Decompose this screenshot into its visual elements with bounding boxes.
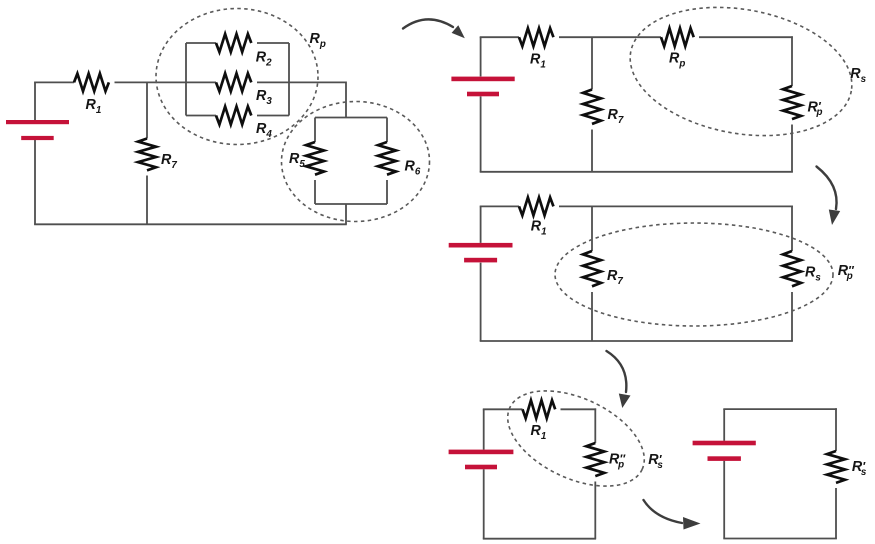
wire: circuit D top, R1 to right corner — [561, 408, 597, 410]
resistor R7 — [583, 90, 601, 124]
wire: circuit C right vertical lower — [791, 292, 793, 341]
wire: R2 branch right lead — [257, 42, 289, 44]
wire: R5/R6 block stub to bottom rail — [345, 204, 347, 224]
wire: circuit B right vertical upper — [791, 36, 793, 86]
wire: R5/R6 block top bar — [315, 117, 387, 119]
svg-text:R′s: R′s — [852, 459, 867, 478]
resistor Rs' — [827, 451, 845, 483]
wire: circuit E top rail — [723, 408, 837, 410]
wire: R7 lower lead — [591, 130, 593, 172]
arrow from circuit A to circuit B — [403, 19, 453, 28]
dashed ellipse around R2,R3,R4 (parallel group Rp) — [156, 9, 318, 145]
wire: circuit D top, battery to R1 — [483, 408, 523, 410]
wire: R7 lower lead — [146, 176, 148, 225]
wire: circuit D left vertical — [483, 409, 485, 449]
battery B (emf source) — [451, 77, 514, 82]
wire: circuit B right vertical lower — [791, 125, 793, 172]
resistor R7 — [138, 139, 156, 171]
wire: circuit A top, block to right corner — [289, 81, 346, 83]
resistor Rp — [661, 28, 694, 46]
wire: circuit A top, battery to R1 — [34, 81, 74, 83]
resistor R1 — [519, 197, 553, 215]
resistor R4 — [216, 107, 251, 125]
resistor R5 — [306, 142, 324, 175]
wire: circuit B top, R1 to node — [559, 36, 661, 38]
resistor Rp'' — [586, 443, 604, 476]
dashed ellipse around R7 and Rs (parallel group Rp'') — [555, 223, 833, 326]
arrow from circuit B to circuit C — [817, 167, 837, 210]
wire: circuit B top, battery to R1 — [480, 36, 519, 38]
arrow from circuit C to circuit D — [607, 351, 627, 392]
wire: R6 lower lead — [386, 180, 388, 204]
wire: circuit D bottom rail — [483, 538, 596, 540]
wire: R6 upper lead — [386, 118, 388, 143]
dashed ellipse around R1 and Rp'' (series group Rs') — [493, 371, 659, 505]
battery E (emf source) — [693, 441, 756, 446]
resistor Rs — [783, 251, 801, 286]
wire: circuit E bottom rail — [723, 538, 837, 540]
resistor R2 — [216, 34, 251, 52]
wire: circuit C bottom rail — [480, 340, 793, 342]
wire: R7 lower lead — [591, 292, 593, 341]
svg-text:R″p: R″p — [609, 452, 626, 471]
wire: circuit E left vertical — [723, 409, 725, 441]
arrow from circuit D to circuit E — [644, 500, 683, 523]
wire: circuit B top, Rp to right corner — [699, 36, 793, 38]
wire: R3 branch right lead — [257, 81, 289, 83]
wire: R5 upper lead — [314, 118, 316, 143]
battery C (emf source) — [449, 243, 513, 248]
wire: R7 branch vertical — [591, 37, 593, 89]
resistor R1 — [523, 400, 556, 418]
resistor R1 — [519, 28, 553, 46]
dashed ellipse around Rp and Rp' (series group Rs) — [620, 0, 862, 152]
wire: circuit D right vertical upper — [594, 408, 596, 443]
wire: circuit E right vertical lower — [835, 488, 837, 539]
dashed ellipse around R5,R6 (parallel pair) — [282, 102, 430, 222]
wire: circuit A bottom rail — [34, 223, 347, 225]
resistor Rp' — [783, 86, 801, 119]
svg-text:R′s: R′s — [648, 452, 663, 471]
wire: parallel block right bar — [288, 43, 290, 116]
resistor R3 — [216, 73, 251, 91]
wire: R7 branch upper lead — [146, 82, 148, 138]
wire: circuit D right vertical lower — [594, 482, 596, 539]
wire: parallel block left bar — [185, 43, 187, 116]
resistor R7 — [583, 251, 601, 286]
wire: R3 branch left lead — [186, 81, 216, 83]
wire: circuit C right vertical upper — [791, 206, 793, 252]
wire: R2 branch left lead — [186, 42, 216, 44]
wire: R4 branch left lead — [186, 115, 216, 117]
wire: circuit C left vertical — [480, 206, 482, 243]
wire: circuit B bottom rail — [480, 171, 793, 173]
battery D (emf source) — [449, 450, 514, 455]
wire: circuit C top, R1 to right corner — [559, 205, 793, 207]
wire: circuit C top, battery to R1 — [480, 205, 519, 207]
resistor R1 — [74, 74, 109, 92]
wire: circuit A top, R1 to node — [115, 81, 187, 83]
svg-text:R′p: R′p — [808, 99, 823, 118]
wire: R5/R6 block bottom bar — [315, 203, 387, 205]
wire: circuit E right vertical upper — [835, 408, 837, 451]
svg-text:R″p: R″p — [838, 263, 855, 282]
wire: R5 lower lead — [314, 180, 316, 204]
wire: R7 branch vertical upper — [591, 206, 593, 251]
wire: circuit A left vertical (battery branch) — [34, 82, 36, 120]
wire: R4 branch right lead — [257, 115, 289, 117]
resistor R6 — [378, 142, 396, 175]
wire: right corner down to R5/R6 block — [345, 82, 347, 118]
wire: circuit B left vertical — [480, 37, 482, 76]
battery A (emf source) — [6, 120, 69, 124]
